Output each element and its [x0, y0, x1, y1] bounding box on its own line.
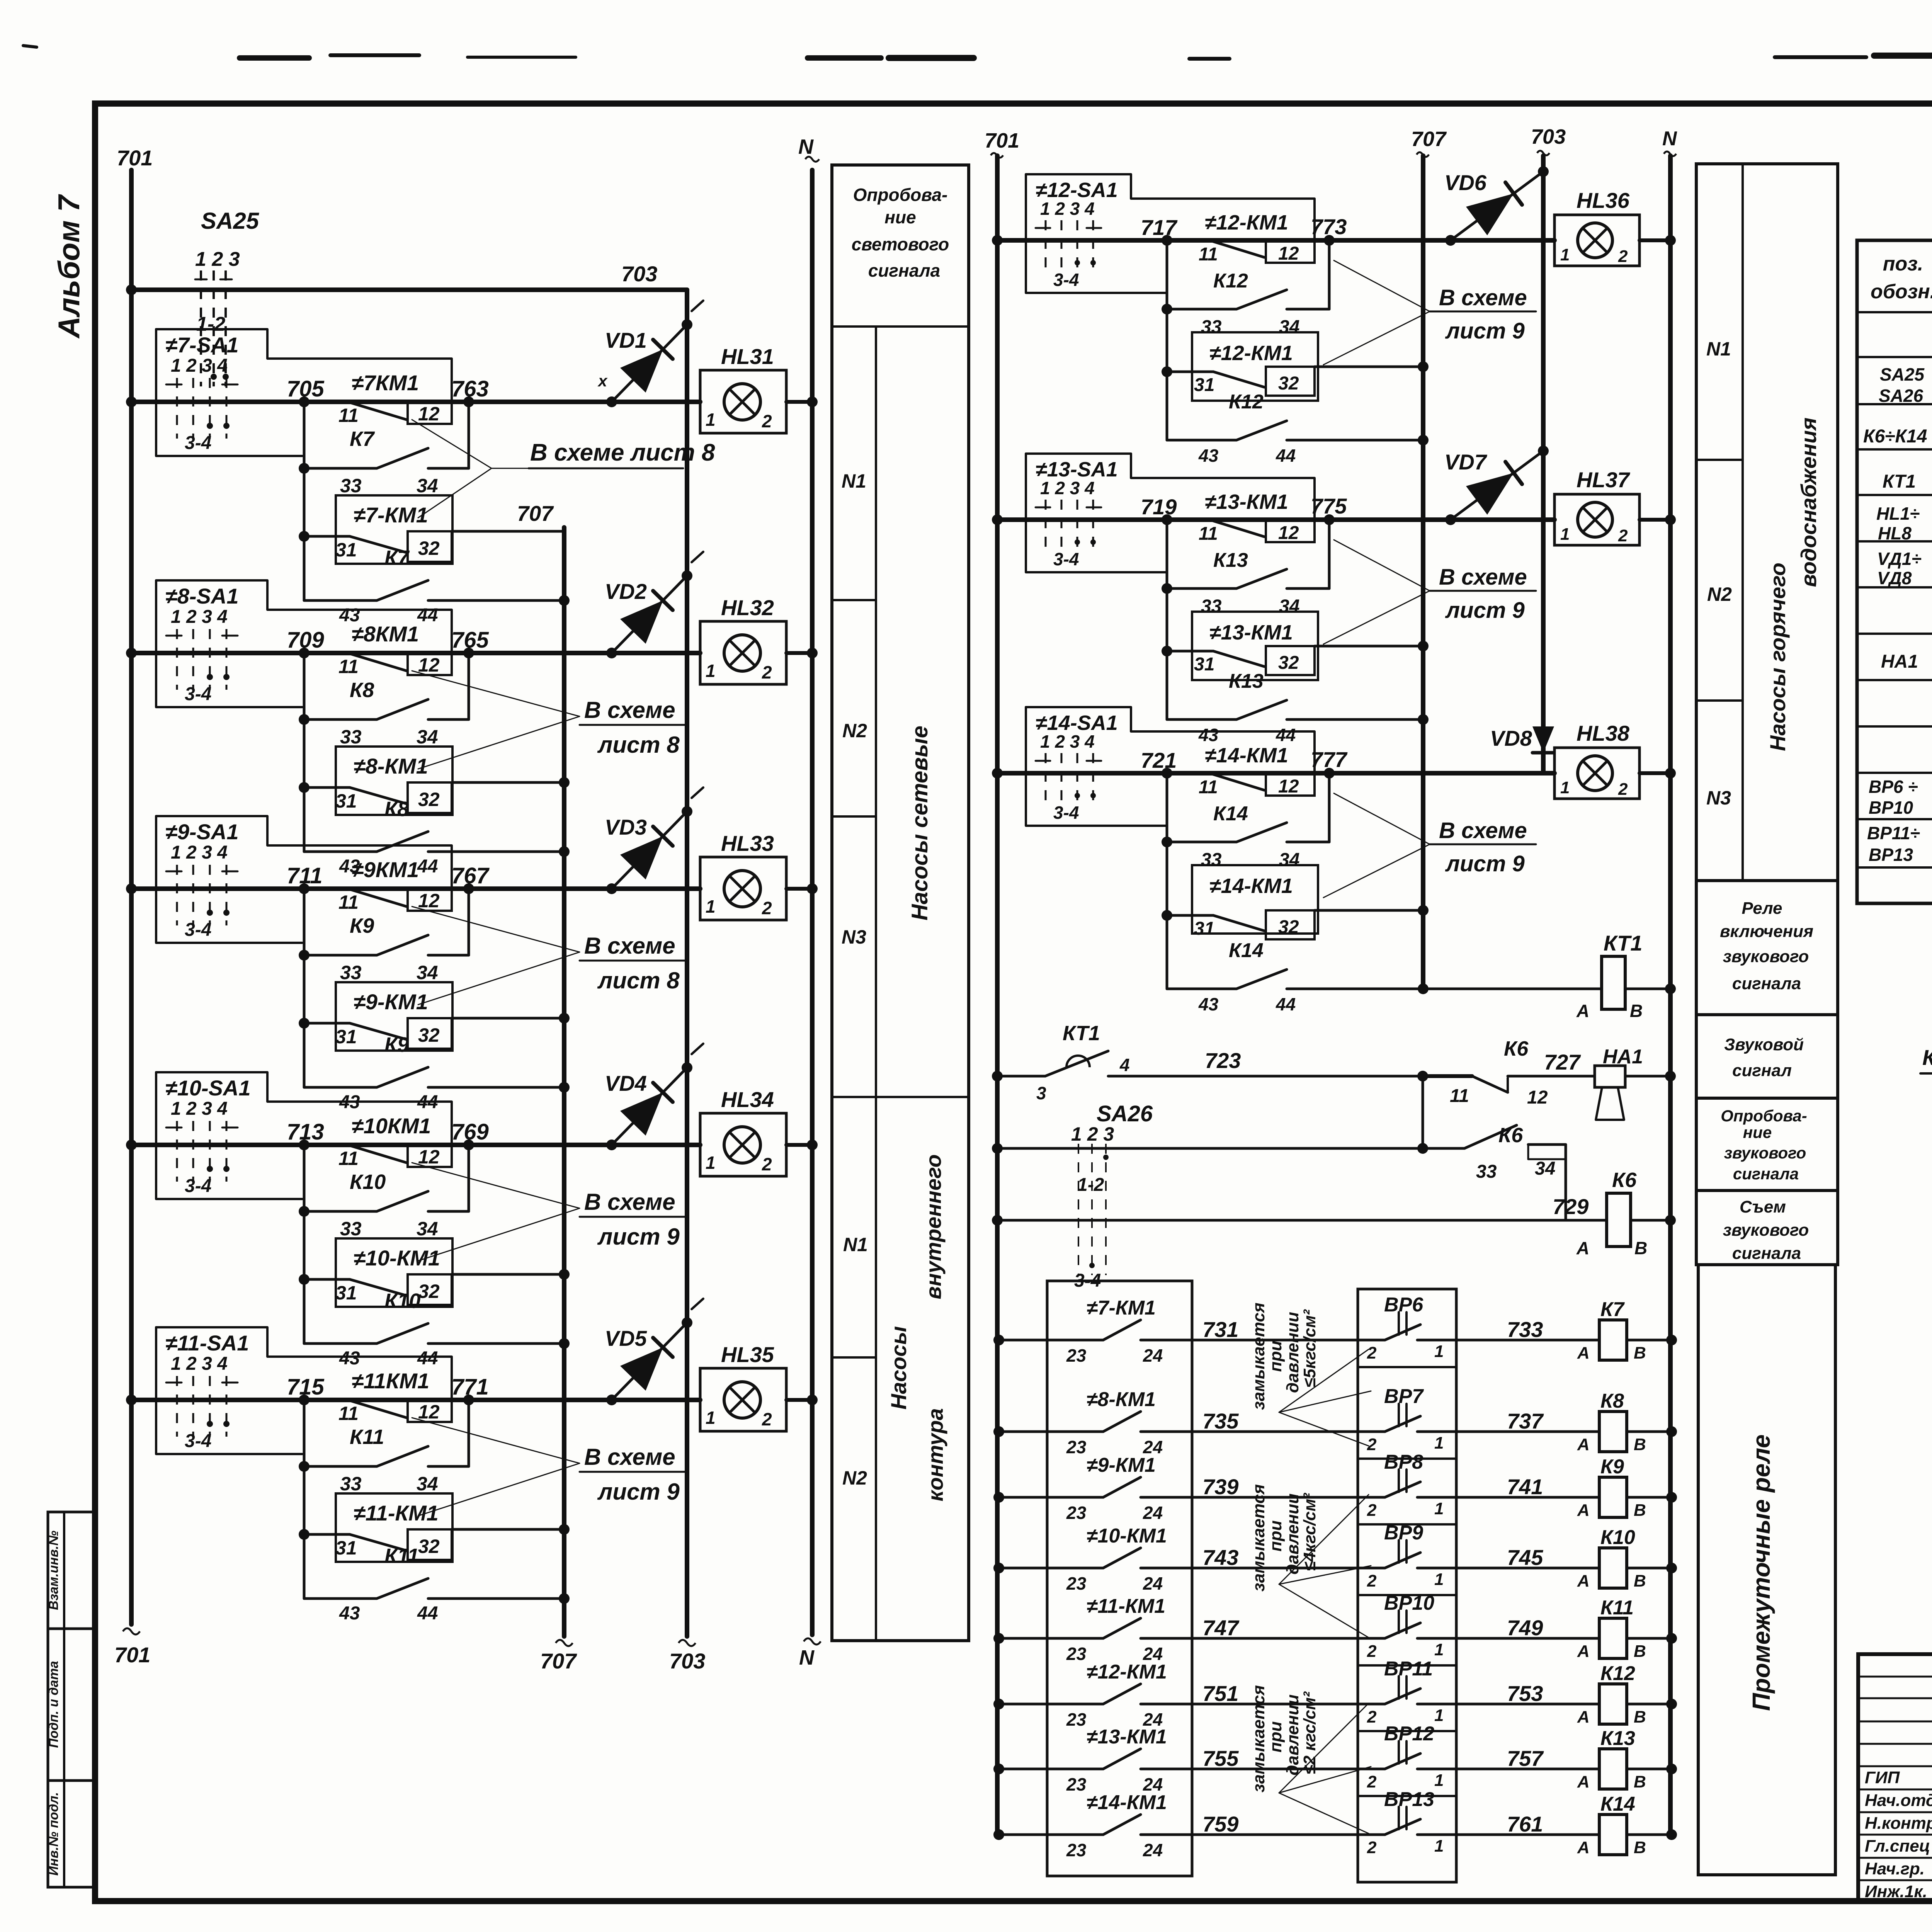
svg-text:2: 2: [762, 411, 772, 431]
svg-text:33: 33: [1201, 850, 1222, 870]
svg-text:лист 9: лист 9: [1445, 851, 1525, 876]
bus 701 middle: [985, 129, 1019, 1835]
svg-text:К14: К14: [1600, 1793, 1635, 1815]
label Насосы горячего водоснабжения: [1765, 418, 1821, 751]
svg-text:Нач.отд: Нач.отд: [1865, 1791, 1932, 1810]
svg-text:741: 741: [1507, 1475, 1543, 1499]
svg-text:44: 44: [1276, 725, 1296, 745]
BOM row SA25 SA26 переключатель: [1879, 364, 1932, 406]
svg-text:HL37: HL37: [1577, 468, 1631, 492]
svg-text:12: 12: [418, 1146, 440, 1168]
svg-text:К6: К6: [1504, 1037, 1529, 1060]
svg-text:давлении: давлении: [1283, 1493, 1302, 1575]
relay contact K7 33-34: [299, 427, 469, 497]
svg-text:HL33: HL33: [721, 831, 774, 855]
wire row 711: [126, 863, 700, 894]
svg-text:Инж.1к.: Инж.1к.: [1865, 1882, 1927, 1901]
cell divider BP box: [1358, 1523, 1456, 1526]
svg-text:3-4: 3-4: [185, 1176, 211, 1196]
svg-text:≠11-КМ1: ≠11-КМ1: [1087, 1595, 1165, 1617]
relay coil К14: [1577, 1793, 1677, 1857]
cell Промежуточные реле: [1698, 1265, 1835, 1875]
cell divider BP box: [1358, 1594, 1456, 1596]
svg-text:753: 753: [1507, 1681, 1543, 1706]
svg-text:33: 33: [340, 726, 362, 748]
svg-text:водоснабжения: водоснабжения: [1796, 418, 1821, 587]
switch #13-SA1: [1026, 454, 1315, 572]
svg-text:КТ1: КТ1: [1883, 471, 1916, 492]
relay coil К7: [1577, 1298, 1677, 1362]
svg-text:SA25: SA25: [201, 208, 260, 234]
svg-text:≠7КМ1: ≠7КМ1: [352, 371, 419, 395]
svg-text:2: 2: [762, 662, 772, 682]
svg-text:2: 2: [1367, 1642, 1377, 1661]
contactor contact #10-KM1 23-24 row 743: [993, 1525, 1385, 1594]
wire 31-32 to bus 707: [1315, 641, 1429, 651]
svg-text:А: А: [1577, 1772, 1590, 1791]
switch #9-SA1: [156, 816, 452, 943]
svg-text:34: 34: [1535, 1158, 1555, 1179]
relay contact K9 43-44: [304, 1033, 570, 1112]
function column middle box: [1696, 164, 1838, 881]
junction dot 701-703 branch: [126, 284, 137, 295]
svg-text:735: 735: [1202, 1409, 1239, 1433]
contactor contact #11-KM1 31-32: [299, 1493, 452, 1562]
svg-text:К7: К7: [384, 546, 410, 570]
lamp HL38: [1554, 721, 1676, 799]
contactor contact #8-KM1 31-32: [299, 747, 452, 815]
cell divider BP box: [1358, 1664, 1456, 1667]
svg-text:Подп. и дата: Подп. и дата: [46, 1661, 61, 1748]
svg-text:≠7-КМ1: ≠7-КМ1: [1087, 1297, 1156, 1319]
svg-text:НА1: НА1: [1881, 651, 1918, 672]
relay coil К12: [1577, 1662, 1677, 1726]
svg-text:К13: К13: [1600, 1727, 1635, 1750]
svg-text:11: 11: [338, 891, 359, 913]
svg-text:ГИП: ГИП: [1865, 1768, 1900, 1787]
pressure switch box column BP: [1358, 1289, 1456, 1882]
svg-text:А: А: [1577, 1838, 1590, 1857]
svg-text:1: 1: [1434, 1434, 1444, 1452]
svg-text:ВР10: ВР10: [1869, 798, 1913, 818]
svg-text:755: 755: [1202, 1746, 1239, 1770]
svg-text:ВР13: ВР13: [1869, 845, 1913, 865]
svg-text:23: 23: [1066, 1573, 1087, 1594]
svg-text:ВР6: ВР6: [1384, 1294, 1423, 1316]
callout В схеме лист 9: [1323, 793, 1536, 898]
svg-text:лист 9: лист 9: [1445, 318, 1525, 344]
bus 703 left vertical: [669, 290, 705, 1673]
svg-text:2: 2: [1367, 1571, 1377, 1590]
relay coil К8: [1577, 1390, 1677, 1454]
svg-text:VD6: VD6: [1444, 170, 1487, 195]
bus 707 middle: [1411, 128, 1447, 989]
svg-text:23: 23: [1066, 1709, 1087, 1730]
svg-text:≤5кгс/см²: ≤5кгс/см²: [1300, 1309, 1319, 1388]
BOM row VD1-VD8 диод: [1877, 549, 1932, 588]
wire 707 row: [452, 1013, 570, 1024]
svg-text:≠10-SA1: ≠10-SA1: [165, 1076, 251, 1100]
svg-text:11: 11: [1450, 1086, 1469, 1106]
svg-text:729: 729: [1553, 1194, 1588, 1219]
svg-text:737: 737: [1507, 1409, 1544, 1433]
svg-text:В схеме: В схеме: [1439, 818, 1527, 843]
svg-text:32: 32: [418, 1024, 440, 1046]
svg-text:HL35: HL35: [721, 1342, 774, 1367]
svg-text:12: 12: [418, 654, 440, 676]
svg-text:В: В: [1630, 1001, 1643, 1021]
svg-text:1: 1: [706, 410, 716, 430]
svg-text:≠10-КМ1: ≠10-КМ1: [1087, 1525, 1167, 1547]
node vertical 719: [1166, 520, 1168, 719]
contactor contact #9-KM1 31-32: [299, 982, 452, 1051]
relay contact K10 33-34: [299, 1170, 469, 1240]
svg-text:1: 1: [1434, 1499, 1444, 1518]
svg-text:ние: ние: [1743, 1123, 1772, 1141]
svg-text:лист 9: лист 9: [1445, 598, 1525, 623]
svg-text:≠10КМ1: ≠10КМ1: [352, 1114, 431, 1138]
svg-text:звукового: звукового: [1723, 947, 1809, 966]
svg-text:34: 34: [1279, 850, 1299, 870]
sounder HA1: [1595, 1046, 1676, 1120]
svg-text:HL32: HL32: [721, 595, 774, 620]
svg-text:ВР6 ÷: ВР6 ÷: [1869, 777, 1918, 797]
svg-text:К9: К9: [1600, 1456, 1624, 1478]
svg-text:24: 24: [1143, 1345, 1163, 1366]
svg-text:707: 707: [517, 501, 554, 526]
callout В схеме лист 9: [412, 1163, 688, 1261]
svg-text:Насосы горячего: Насосы горячего: [1765, 563, 1790, 751]
wire 31-32 to bus 707: [1315, 905, 1429, 916]
svg-text:ВР7: ВР7: [1384, 1385, 1424, 1408]
svg-text:43: 43: [339, 1348, 360, 1369]
svg-text:23: 23: [1066, 1840, 1087, 1860]
wire 707 row: [452, 501, 564, 531]
svg-text:43: 43: [1198, 725, 1219, 745]
cell divider BP box: [1358, 1366, 1456, 1368]
svg-text:1 2 3 4: 1 2 3 4: [171, 355, 228, 376]
svg-text:1 2 3: 1 2 3: [1071, 1123, 1114, 1145]
svg-text:замыкается: замыкается: [1249, 1685, 1268, 1793]
svg-text:лист 8: лист 8: [597, 968, 680, 993]
svg-text:31: 31: [335, 1026, 357, 1048]
svg-text:2: 2: [1367, 1772, 1377, 1791]
contactor contact #12-KM1 31-32: [1162, 332, 1318, 401]
svg-text:32: 32: [418, 537, 440, 559]
svg-text:К11: К11: [384, 1544, 419, 1568]
title block main table: [1858, 1654, 1932, 1901]
wire row 709: [126, 628, 700, 658]
svg-text:44: 44: [417, 1348, 438, 1369]
svg-text:3: 3: [1036, 1083, 1046, 1103]
svg-text:Гл.спец: Гл.спец: [1865, 1837, 1930, 1855]
node vertical 705: [303, 402, 306, 600]
svg-text:В: В: [1634, 1238, 1647, 1258]
svg-text:В: В: [1634, 1838, 1646, 1857]
relay contact K8 43-44: [304, 798, 570, 877]
svg-text:В схеме: В схеме: [584, 1444, 675, 1470]
contactor contact #13-KM1 31-32: [1162, 612, 1318, 680]
svg-text:≠11КМ1: ≠11КМ1: [352, 1369, 429, 1393]
svg-text:N: N: [1662, 128, 1677, 150]
contactor contact #12-KM1 23-24 row 751: [993, 1661, 1385, 1730]
diode VD8 vertical on bus 703: [1490, 726, 1554, 753]
callout В схеме лист 8: [412, 906, 688, 1005]
lamp HL37: [1554, 468, 1676, 545]
note замыкается при давлении 5 кгс/см2 group 1: [1249, 1303, 1371, 1446]
svg-text:Опробова-: Опробова-: [1721, 1107, 1807, 1125]
svg-text:1 2 3 4: 1 2 3 4: [171, 1099, 228, 1119]
svg-text:А: А: [1577, 1642, 1590, 1661]
svg-text:HL34: HL34: [721, 1087, 774, 1112]
svg-text:1: 1: [1434, 1342, 1444, 1361]
svg-text:А: А: [1577, 1344, 1590, 1362]
BOM row ВР11-ВР13 манометр: [1867, 823, 1932, 865]
svg-text:при: при: [1266, 1341, 1285, 1372]
diode VD5: [605, 1299, 703, 1405]
svg-text:К11: К11: [1600, 1597, 1634, 1619]
svg-text:Звуковой: Звуковой: [1724, 1035, 1804, 1054]
node vertical 713: [303, 1145, 306, 1344]
svg-text:К6: К6: [1498, 1124, 1523, 1147]
svg-text:769: 769: [451, 1119, 489, 1145]
svg-text:32: 32: [1278, 917, 1299, 937]
relay contact K8 33-34: [299, 679, 469, 748]
svg-text:Взам.инв.№: Взам.инв.№: [46, 1531, 61, 1610]
svg-text:≠9-КМ1: ≠9-КМ1: [354, 990, 428, 1014]
diode VD6: [1444, 166, 1549, 246]
svg-text:23: 23: [1066, 1503, 1087, 1523]
svg-text:32: 32: [418, 1536, 440, 1557]
svg-text:731: 731: [1202, 1317, 1238, 1342]
node vertical 771: [468, 1400, 470, 1466]
svg-text:11: 11: [338, 1403, 359, 1424]
svg-text:HL38: HL38: [1577, 721, 1630, 745]
svg-text:К12: К12: [1213, 270, 1248, 292]
svg-text:В: В: [1634, 1501, 1646, 1520]
svg-text:777: 777: [1311, 747, 1348, 772]
svg-text:В: В: [1634, 1708, 1646, 1726]
svg-text:12: 12: [1278, 776, 1299, 797]
svg-text:Ключ управления SA25: Ключ управления SA25: [1922, 1045, 1932, 1070]
svg-text:давлении: давлении: [1283, 1312, 1302, 1393]
svg-text:N2: N2: [842, 720, 867, 742]
wire row 721: [992, 747, 1554, 779]
svg-text:Съем: Съем: [1740, 1197, 1786, 1216]
svg-text:23: 23: [1066, 1774, 1087, 1794]
svg-text:1-2: 1-2: [1077, 1175, 1104, 1195]
svg-text:11: 11: [1199, 524, 1218, 544]
svg-text:3-4: 3-4: [185, 1431, 211, 1451]
svg-text:сигнала: сигнала: [1732, 974, 1801, 993]
svg-text:1: 1: [706, 1408, 716, 1428]
contactor contact #13-KM1 23-24 row 755: [993, 1726, 1385, 1794]
svg-text:К6: К6: [1612, 1168, 1637, 1192]
bus 701 left: [114, 146, 153, 1667]
svg-text:2: 2: [1618, 247, 1628, 266]
relay contact K11 43-44: [304, 1544, 570, 1624]
node vertical 765: [468, 653, 470, 719]
svg-text:N2: N2: [842, 1467, 867, 1489]
pressure switch ВР13: [1367, 1788, 1599, 1857]
svg-text:765: 765: [451, 628, 489, 653]
svg-text:1: 1: [1434, 1640, 1444, 1659]
svg-text:1 2 3 4: 1 2 3 4: [1040, 478, 1095, 498]
relay contact K12 43-44: [1167, 391, 1429, 466]
timer contact KT1 row 723: [992, 1022, 1428, 1103]
pressure switch ВР11: [1367, 1658, 1599, 1726]
pressure switch ВР12: [1367, 1723, 1599, 1791]
BOM row К6-К14 реле промежуточное: [1863, 421, 1932, 447]
pressure switch ВР10: [1367, 1592, 1599, 1661]
wire row 717: [992, 214, 1554, 246]
node vertical 709: [303, 653, 306, 852]
svg-text:≠9-SA1: ≠9-SA1: [165, 820, 238, 844]
svg-text:1 2 3 4: 1 2 3 4: [171, 607, 228, 627]
svg-text:≠9КМ1: ≠9КМ1: [352, 857, 419, 882]
svg-text:поз.: поз.: [1883, 253, 1923, 275]
wire 723 to 33 row vertical: [1417, 1076, 1428, 1154]
node vertical 715: [303, 1400, 306, 1599]
svg-text:КТ1: КТ1: [1063, 1022, 1100, 1045]
svg-text:701: 701: [114, 1643, 150, 1667]
svg-text:1: 1: [1560, 245, 1570, 264]
svg-text:773: 773: [1311, 214, 1347, 239]
diode VD2: [605, 552, 703, 658]
svg-text:727: 727: [1544, 1050, 1581, 1074]
svg-text:звукового: звукового: [1724, 1144, 1806, 1162]
cell divider BP box: [1358, 1795, 1456, 1797]
svg-text:N1: N1: [842, 470, 866, 492]
svg-text:703: 703: [1531, 125, 1566, 148]
svg-text:≠12-КМ1: ≠12-КМ1: [1205, 211, 1288, 234]
wire row 705: [126, 376, 700, 407]
BOM header texts: [1871, 253, 1932, 303]
cell N3 left: [842, 926, 866, 948]
cell N2 left: [832, 720, 876, 816]
svg-text:23: 23: [1066, 1345, 1087, 1366]
relay contact K13 43-44: [1167, 670, 1429, 745]
svg-text:≠12-SA1: ≠12-SA1: [1036, 179, 1118, 202]
svg-text:771: 771: [451, 1374, 489, 1400]
svg-text:775: 775: [1311, 494, 1347, 518]
svg-text:при: при: [1266, 1721, 1285, 1753]
svg-text:≠7-КМ1: ≠7-КМ1: [354, 503, 428, 527]
svg-text:К10: К10: [384, 1289, 420, 1313]
cell Съем звукового сигнала: [1696, 1190, 1838, 1265]
pressure switch ВР7: [1367, 1385, 1599, 1454]
node vertical 721: [1166, 773, 1168, 989]
switch #14-SA1: [1026, 707, 1315, 826]
svg-text:33: 33: [1201, 596, 1222, 617]
lamp HL36: [1554, 188, 1676, 266]
lamp HL34: [700, 1087, 818, 1176]
svg-text:32: 32: [418, 789, 440, 810]
svg-text:≠8-КМ1: ≠8-КМ1: [354, 754, 428, 778]
svg-text:ВР11÷: ВР11÷: [1867, 823, 1920, 843]
svg-text:К10: К10: [1600, 1526, 1635, 1549]
svg-text:≠14-КМ1: ≠14-КМ1: [1209, 874, 1293, 898]
contactor contact #7KM1 11-12: [338, 371, 452, 426]
album label Альбом 7: [52, 194, 86, 338]
svg-text:31: 31: [335, 539, 357, 561]
relay contact K13 33-34: [1162, 549, 1329, 617]
svg-text:2: 2: [1367, 1435, 1377, 1454]
relay contact K6 33-34 row: [992, 1124, 1566, 1220]
svg-text:ВР11: ВР11: [1384, 1658, 1433, 1680]
svg-text:К7: К7: [1600, 1298, 1625, 1321]
svg-text:N: N: [799, 1646, 815, 1669]
BOM row НА1 ревун: [1881, 646, 1932, 672]
svg-text:44: 44: [417, 856, 438, 877]
side stamp box Инв.№ подл.: [46, 1781, 95, 1887]
contactor contact #9-KM1 23-24 row 739: [993, 1454, 1385, 1523]
contactor contact #14-KM1 23-24 row 759: [993, 1791, 1385, 1860]
svg-text:Реле: Реле: [1742, 899, 1782, 918]
switch #7-SA1: [156, 329, 452, 456]
svg-text:HL31: HL31: [721, 344, 774, 369]
svg-text:719: 719: [1141, 495, 1177, 519]
svg-text:≠13-SA1: ≠13-SA1: [1036, 458, 1118, 481]
svg-text:звукового: звукового: [1723, 1221, 1809, 1240]
svg-text:x: x: [597, 372, 608, 390]
svg-text:1: 1: [706, 1153, 716, 1173]
BOM table grid: [1857, 240, 1932, 903]
wire 31-32 to bus 707: [1315, 361, 1429, 372]
svg-text:34: 34: [1279, 317, 1299, 337]
svg-text:2: 2: [1618, 780, 1628, 799]
cell N1 middle: [1696, 338, 1743, 460]
relay contact K10 43-44: [304, 1289, 570, 1369]
cell Звуковой сигнал: [1696, 1015, 1838, 1098]
svg-text:12: 12: [418, 1401, 440, 1423]
svg-text:Н.контр: Н.контр: [1865, 1814, 1932, 1833]
svg-text:VD5: VD5: [605, 1326, 647, 1350]
svg-text:705: 705: [287, 376, 325, 401]
svg-text:Альбом 7: Альбом 7: [52, 194, 86, 338]
node vertical 717: [1166, 240, 1168, 440]
svg-text:24: 24: [1143, 1840, 1163, 1860]
svg-text:11: 11: [338, 656, 359, 677]
divider pumps groups: [832, 1096, 969, 1098]
svg-text:N3: N3: [842, 926, 866, 948]
svg-text:31: 31: [1194, 375, 1214, 395]
svg-text:включения: включения: [1720, 922, 1813, 941]
svg-text:31: 31: [335, 790, 357, 812]
contactor contact #11-KM1 23-24 row 747: [993, 1595, 1385, 1664]
svg-text:≤4кгс/см²: ≤4кгс/см²: [1300, 1493, 1319, 1571]
pressure switch ВР9: [1367, 1522, 1599, 1590]
contactor contact #7-KM1 31-32: [299, 495, 452, 564]
svg-text:Инв.№ подл.: Инв.№ подл.: [46, 1792, 61, 1876]
callout В схеме лист 9: [412, 1418, 688, 1516]
side stamp box Взам.инв.№: [46, 1512, 95, 1629]
svg-text:2: 2: [1367, 1501, 1377, 1520]
svg-text:лист 8: лист 8: [597, 732, 680, 758]
bus N middle: [1662, 128, 1677, 1835]
side stamp inner divider: [63, 1512, 65, 1887]
svg-text:VД1÷: VД1÷: [1877, 549, 1922, 569]
svg-text:К13: К13: [1229, 670, 1264, 692]
switch #10-SA1: [156, 1072, 452, 1199]
switch #12-SA1: [1026, 174, 1315, 293]
svg-text:767: 767: [451, 863, 490, 888]
svg-text:N2: N2: [1707, 583, 1732, 605]
svg-text:11: 11: [1199, 244, 1218, 265]
contactor contact #9KM1 11-12: [338, 857, 452, 913]
svg-text:12: 12: [418, 403, 440, 425]
svg-text:24: 24: [1143, 1573, 1163, 1594]
